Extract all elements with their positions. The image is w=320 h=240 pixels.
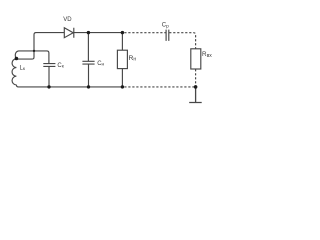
junction dot tank crossing: [33, 50, 35, 52]
svg-text:Lк: Lк: [20, 65, 26, 72]
inductor Lk: [12, 59, 16, 85]
wire Rn bottom lead: [121, 69, 123, 87]
ground symbol: [189, 87, 202, 103]
junction dot coil top: [15, 57, 19, 61]
wire Cn top lead: [87, 33, 89, 62]
wire link from top rail down to coil top: [17, 33, 37, 60]
wire Ck bottom lead: [48, 67, 50, 87]
svg-text:Cн: Cн: [97, 61, 104, 68]
wire top rail solid left of diode: [36, 32, 65, 34]
junction dot Rn bottom: [121, 85, 124, 88]
resistor Rn: [117, 50, 127, 68]
svg-text:Rн: Rн: [129, 55, 137, 63]
wire dashed top rail to Cp: [124, 32, 166, 34]
wire top rail solid diode to Rn node: [74, 32, 123, 34]
capacitor Cp plates: [166, 30, 169, 41]
wire dashed bottom rail: [124, 86, 194, 88]
junction dot ground node: [194, 85, 198, 89]
svg-text:VD: VD: [63, 17, 72, 23]
wire dashed Rvx bottom lead: [195, 69, 197, 87]
wire Cn bottom lead: [88, 64, 90, 87]
junction dot Rn top: [121, 31, 124, 34]
wire bottom rail solid: [16, 85, 122, 87]
junction dot Cn bottom: [87, 85, 90, 88]
svg-text:Cр: Cр: [162, 23, 169, 30]
junction dot Ck bottom: [47, 85, 50, 88]
svg-text:Cк: Cк: [57, 63, 64, 70]
wire tank top node line from coil to Ck: [15, 51, 49, 64]
diode VD: [64, 28, 74, 38]
wire dashed Cp to corner down to Rvx: [169, 33, 195, 49]
resistor Rvx: [191, 49, 201, 69]
svg-text:Rвх: Rвх: [202, 51, 212, 59]
capacitor Ck plates: [43, 64, 55, 67]
wire Rn top lead: [121, 33, 123, 51]
capacitor Cn plates: [82, 61, 94, 64]
junction dot diode output: [87, 31, 90, 34]
